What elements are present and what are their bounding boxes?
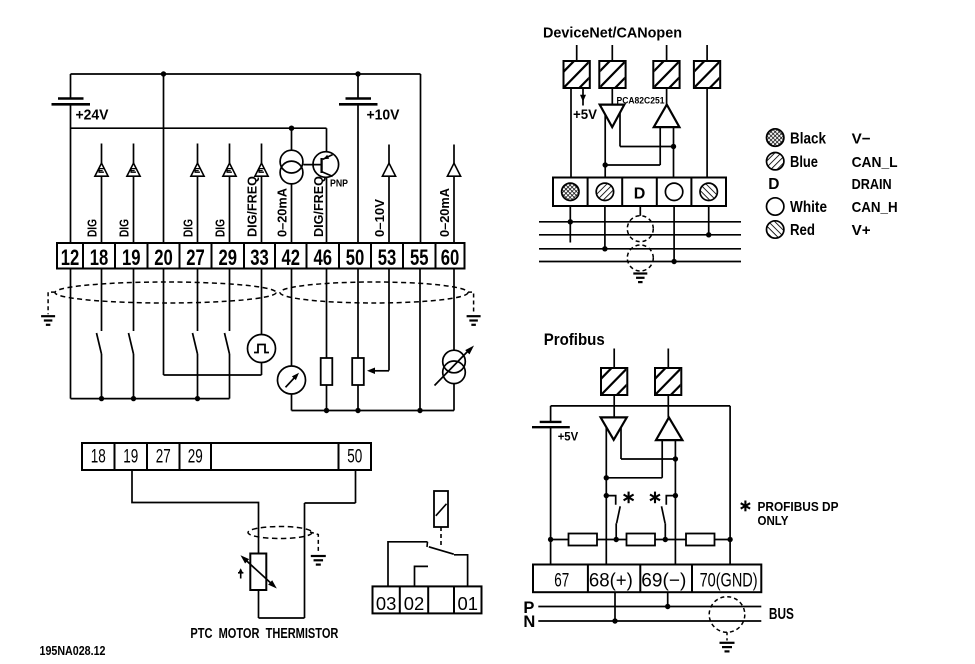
svg-text:50: 50	[346, 245, 365, 270]
svg-text:DIG/FREQ: DIG/FREQ	[311, 176, 326, 237]
svg-text:53: 53	[378, 245, 397, 270]
svg-text:Black: Black	[790, 130, 826, 147]
svg-text:ONLY: ONLY	[758, 513, 789, 528]
svg-text:69(−): 69(−)	[641, 571, 686, 592]
svg-text:68(+): 68(+)	[589, 571, 633, 592]
svg-text:0–10V: 0–10V	[372, 199, 387, 237]
svg-text:195NA028.12: 195NA028.12	[40, 644, 106, 658]
svg-text:V−: V−	[852, 130, 871, 147]
svg-text:Blue: Blue	[790, 154, 818, 171]
svg-text:D: D	[634, 185, 646, 202]
svg-text:19: 19	[122, 245, 141, 270]
svg-text:CAN_H: CAN_H	[852, 199, 898, 216]
svg-text:0–20mA: 0–20mA	[274, 187, 289, 237]
svg-text:D: D	[768, 176, 779, 193]
svg-text:29: 29	[219, 245, 238, 270]
svg-text:50: 50	[347, 446, 362, 467]
svg-text:46: 46	[314, 245, 333, 270]
svg-text:DRAIN: DRAIN	[852, 176, 892, 193]
svg-text:18: 18	[91, 446, 106, 467]
svg-text:0–20mA: 0–20mA	[437, 187, 452, 237]
svg-text:42: 42	[282, 245, 301, 270]
svg-text:PCA82C251: PCA82C251	[617, 95, 666, 106]
svg-text:67: 67	[554, 571, 569, 592]
svg-text:CAN_L: CAN_L	[852, 154, 898, 171]
svg-text:19: 19	[123, 446, 138, 467]
svg-text:BUS: BUS	[769, 606, 794, 623]
svg-text:DeviceNet/CANopen: DeviceNet/CANopen	[543, 25, 682, 42]
svg-text:PNP: PNP	[330, 178, 348, 190]
svg-text:DIG/FREQ: DIG/FREQ	[244, 176, 259, 237]
svg-text:02: 02	[404, 593, 425, 614]
svg-text:+10V: +10V	[367, 107, 400, 124]
svg-text:Red: Red	[790, 222, 815, 239]
svg-text:27: 27	[156, 446, 171, 467]
svg-text:PTC MOTOR THERMISTOR: PTC MOTOR THERMISTOR	[190, 626, 338, 642]
svg-text:33: 33	[250, 245, 269, 270]
svg-text:Profibus: Profibus	[544, 331, 605, 349]
svg-text:29: 29	[188, 446, 203, 467]
svg-text:V+: V+	[852, 222, 871, 239]
svg-text:N: N	[523, 613, 535, 631]
svg-text:12: 12	[61, 245, 80, 270]
svg-text:60: 60	[441, 245, 460, 270]
svg-text:DIG: DIG	[84, 219, 99, 237]
svg-text:27: 27	[186, 245, 205, 270]
svg-text:55: 55	[410, 245, 429, 270]
svg-text:20: 20	[154, 245, 173, 270]
svg-text:DIG: DIG	[116, 219, 131, 237]
svg-text:DIG: DIG	[180, 219, 195, 237]
svg-text:70(GND): 70(GND)	[700, 571, 758, 592]
svg-text:PROFIBUS DP: PROFIBUS DP	[758, 499, 839, 514]
svg-text:+5V: +5V	[558, 431, 579, 443]
svg-text:03: 03	[376, 593, 397, 614]
svg-text:White: White	[790, 199, 827, 216]
svg-text:+5V: +5V	[573, 107, 597, 122]
svg-text:+24V: +24V	[76, 107, 109, 124]
svg-text:18: 18	[90, 245, 109, 270]
svg-text:01: 01	[458, 593, 479, 614]
svg-text:DIG: DIG	[212, 219, 227, 237]
